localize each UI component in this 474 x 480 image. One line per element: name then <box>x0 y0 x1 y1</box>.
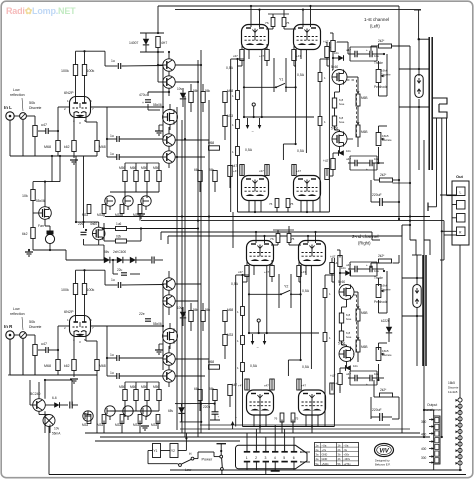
logo ViV <box>375 444 394 457</box>
wire cathode b In L <box>85 113 87 123</box>
svg-text:2k2*: 2k2* <box>378 254 385 258</box>
vertical rail d <box>200 50 202 433</box>
svg-text:75: 75 <box>290 202 294 206</box>
wire q rows right2 <box>175 139 209 141</box>
arrow up ch2 <box>232 422 234 429</box>
svg-text:14007: 14007 <box>129 41 139 45</box>
svg-text:75: 75 <box>291 237 295 241</box>
wire fan motor <box>44 219 46 226</box>
wire h59 216 <box>236 274 249 276</box>
svg-text:+47: +47 <box>323 159 329 163</box>
capacitor u47 r2 0 <box>354 160 356 167</box>
wire tube2 pin stubs 216 <box>305 266 307 276</box>
wire cathode b In R <box>85 332 87 342</box>
wire Y boxes link <box>161 450 171 452</box>
svg-text:(Left): (Left) <box>370 24 380 29</box>
svg-text:k47: k47 <box>232 164 237 168</box>
resistor 56k b <box>201 311 205 322</box>
wire jack to pot In R <box>14 334 19 336</box>
resistor 56k c <box>213 390 217 401</box>
resistor M56 3 <box>145 390 149 401</box>
wire v295 0 <box>295 50 297 144</box>
resistor 1u6 <box>116 227 127 231</box>
wire ch2 tube bottom drops <box>259 405 261 434</box>
pot 16k6 215 <box>376 285 381 298</box>
svg-text:M33: M33 <box>97 213 103 217</box>
svg-text:300: 300 <box>421 456 427 460</box>
wire out feeds <box>446 119 448 196</box>
wire mid risers ch1 <box>103 214 105 217</box>
svg-text:16k5: 16k5 <box>382 134 389 138</box>
resistor M66 2 <box>134 171 138 182</box>
resistor 6k2 left <box>31 228 35 239</box>
capacitor coupling 1u In L <box>117 63 119 69</box>
wire 220uF ch2 <box>392 418 399 420</box>
resistor M56 3 <box>145 171 149 182</box>
tube V1 216 <box>247 241 274 266</box>
svg-text:6: 6 <box>293 456 295 460</box>
wire M6B 0 <box>357 106 359 125</box>
triode 6N2P <box>70 316 91 337</box>
wire out R feed <box>444 234 457 236</box>
wire res row bottom <box>124 182 126 199</box>
svg-text:M6B: M6B <box>361 96 368 100</box>
svg-text:56k: 56k <box>209 168 215 172</box>
resistor 100k a In R <box>73 284 77 295</box>
svg-text:7S: 7S <box>270 237 274 241</box>
svg-text:M56: M56 <box>119 385 125 389</box>
resistor +47 e 0 <box>240 165 244 176</box>
svg-text:1-st channel: 1-st channel <box>364 17 389 22</box>
wire v244 0 <box>243 50 245 117</box>
svg-text:M66: M66 <box>130 385 136 389</box>
svg-text:76: 76 <box>274 417 278 421</box>
wire Y boxes loop <box>148 450 153 452</box>
svg-text:M68: M68 <box>44 364 51 368</box>
bottom bus 3 <box>170 469 462 471</box>
svg-text:M56: M56 <box>119 166 125 170</box>
wire M68 to bus In R <box>57 371 59 376</box>
connector shell <box>236 445 308 469</box>
wire anode a In R <box>75 295 77 323</box>
svg-text:0,5A: 0,5A <box>297 149 305 153</box>
wire h144 0 <box>283 143 295 145</box>
wire tube1 bottoms 0 <box>241 44 243 50</box>
wire grid bottom tie 0 <box>238 211 330 213</box>
capacitor 10u r2 0 <box>369 160 371 167</box>
resistor 56k a <box>189 92 193 103</box>
resistor 75 d 0 <box>286 199 290 208</box>
wire caps right <box>119 357 163 359</box>
jfet bias d <box>83 411 93 421</box>
wire out verticals <box>436 119 438 207</box>
bottom bus 5 <box>95 440 240 442</box>
svg-text:M6B: M6B <box>361 311 368 315</box>
diode D7 <box>130 257 136 263</box>
wire bar feed <box>418 10 420 40</box>
wire q1 q2 <box>168 52 170 59</box>
wire base node ch2 <box>162 283 164 285</box>
svg-text:fuse: fuse <box>339 102 345 106</box>
wire cathode a In L <box>73 113 75 141</box>
wire right verticals x402 <box>401 225 403 433</box>
vertical rail c <box>197 60 199 437</box>
wire 2k2 ch2 link <box>393 262 400 264</box>
resistor M68 h <box>209 365 220 369</box>
svg-text:56k: 56k <box>209 387 215 391</box>
transistor Q2b <box>163 295 175 307</box>
wire fan bus <box>44 411 46 433</box>
wire right verticals x444 <box>443 221 445 260</box>
svg-text:56mA: 56mA <box>52 432 61 436</box>
wire H switch right <box>194 458 198 460</box>
resistor 2k2 b 0 <box>380 178 393 182</box>
diode D5 <box>104 257 110 263</box>
mosfet 55x06 mid2 <box>163 329 178 344</box>
svg-text:M66: M66 <box>130 166 136 170</box>
svg-text:0,5A: 0,5A <box>250 364 258 368</box>
resistor M56 1 <box>123 171 127 182</box>
wire k62 bus In L <box>73 152 75 159</box>
fuse 1 b 0 <box>236 120 240 129</box>
svg-text:Discrete: Discrete <box>448 386 459 390</box>
wire 10k top <box>32 182 34 190</box>
diode 10v r2 215 <box>345 365 350 371</box>
wire q rows right <box>175 64 201 66</box>
wire ch2 rail 1 <box>161 231 372 233</box>
fuse 1 d 216 <box>323 289 327 298</box>
svg-text:55x06: 55x06 <box>153 322 162 326</box>
wire tube34 bot 216 <box>259 415 261 427</box>
wire diode tie bot <box>140 51 164 53</box>
svg-text:0,5A: 0,5A <box>226 66 234 70</box>
wire pot2 ch2 <box>378 364 380 380</box>
wire 100k top In R <box>75 270 77 283</box>
wire tube34 bot 0 <box>254 201 256 213</box>
wire h144 216 <box>288 359 300 361</box>
wire mosfet mid2 <box>169 323 171 329</box>
wire anode a In L <box>75 76 77 104</box>
wire M68b bus In L <box>96 152 98 157</box>
svg-text:+: + <box>142 101 144 105</box>
diode 10v r 0 <box>338 55 343 61</box>
svg-text:u47: u47 <box>41 123 47 127</box>
svg-text:M33: M33 <box>82 423 88 427</box>
svg-text:4: 4 <box>274 456 276 460</box>
resistor M33 3 <box>138 415 142 424</box>
wire res drops 0 <box>241 61 243 67</box>
svg-text:22e: 22e <box>139 312 145 316</box>
long vertical a <box>423 140 425 437</box>
resistor +47 e 216 <box>245 379 249 390</box>
wire diode row <box>100 259 104 261</box>
svg-text:M56: M56 <box>153 166 159 170</box>
wire mosfet left <box>32 201 34 214</box>
arrow down a 0 <box>247 118 249 128</box>
svg-text:x47: x47 <box>264 384 269 388</box>
wire 2k2b ch2 down <box>393 396 400 398</box>
wire top rail to bar <box>398 6 400 125</box>
wire 6k2 bottom <box>32 239 34 251</box>
wire BC240 base <box>30 404 33 406</box>
resistor 75 d 216 <box>291 413 295 422</box>
wire 220uF ch1 <box>392 201 399 203</box>
resistor M68 cath In L <box>95 141 99 152</box>
svg-text:+47: +47 <box>330 374 336 378</box>
wire q rows right2 ch2 <box>175 358 209 360</box>
jfet bias b <box>123 406 133 416</box>
wire 470u <box>147 92 149 96</box>
resistor 66k <box>198 171 202 182</box>
wire grid right edge 0 <box>328 42 330 212</box>
triode 6N2P <box>70 97 91 118</box>
resistor M68 grid In L <box>56 141 60 152</box>
wire grid right rail 0 <box>319 59 321 73</box>
wire bc240 top <box>44 380 46 399</box>
svg-text:50k: 50k <box>29 320 35 324</box>
svg-text:M33: M33 <box>82 213 88 217</box>
svg-text:6N2P: 6N2P <box>64 310 74 314</box>
tube V1 0 <box>242 25 269 50</box>
wire top res 0 <box>268 13 289 15</box>
wire v306 216 <box>310 266 312 369</box>
box Y1 <box>153 444 161 458</box>
diode D6 <box>117 257 123 263</box>
svg-text:ViV: ViV <box>379 449 389 455</box>
wire lower tube drops 0 <box>248 201 250 213</box>
svg-text:2k2*: 2k2* <box>380 173 387 177</box>
diode zener 10v <box>180 93 186 99</box>
resistor k62 In R <box>72 360 76 371</box>
dashed feedback 215 <box>356 295 358 352</box>
diode 10v r2 0 <box>338 150 343 156</box>
svg-text:1u: 1u <box>110 371 114 375</box>
svg-text:GND: GND <box>322 457 328 461</box>
resistor +47 r 0 <box>331 41 335 52</box>
wire resistor to bus In L <box>34 137 36 157</box>
wire 22u <box>112 260 114 274</box>
arrow down b 0 <box>259 118 261 128</box>
svg-text:56k: 56k <box>205 89 211 93</box>
svg-text:M68: M68 <box>44 145 51 149</box>
Out pin R <box>457 227 466 236</box>
transformer core <box>434 416 440 464</box>
wire caps r 215 <box>348 268 355 270</box>
fuse 6.0 215 <box>339 331 343 341</box>
wire drivers <box>168 346 170 353</box>
tube V2 0 <box>294 25 321 50</box>
terminal v253 0 <box>252 103 255 106</box>
svg-text:1u: 1u <box>110 152 114 156</box>
svg-text:Discrete: Discrete <box>29 325 42 329</box>
wire k2226 <box>388 318 390 327</box>
fuse 1 e 0 <box>318 117 322 126</box>
svg-text:4n60: 4n60 <box>90 222 97 226</box>
wire transformer top <box>433 410 435 416</box>
mosfet 55x06 left <box>39 207 52 220</box>
svg-text:Penthode: Penthode <box>374 300 388 304</box>
wire midright v <box>224 103 226 116</box>
wire top feeds 0 <box>250 6 252 27</box>
tube V2 216 <box>299 241 326 266</box>
wire right col 0 <box>332 52 334 59</box>
svg-text:5=60: 5=60 <box>338 280 345 284</box>
wire 56k <box>190 303 192 311</box>
svg-text:10v: 10v <box>353 364 358 368</box>
capacitor 22e <box>145 318 151 320</box>
resistor M68 v <box>223 311 227 322</box>
resistor 02k <box>116 239 127 243</box>
svg-text:u47: u47 <box>346 263 351 267</box>
wire left down ch2 <box>22 338 24 375</box>
svg-text:Y2: Y2 <box>284 285 288 289</box>
transistor driver b <box>163 370 175 382</box>
svg-text:Radi✿Lomp.NET: Radi✿Lomp.NET <box>6 6 76 16</box>
junction dots misc <box>181 215 183 217</box>
transistor driver a <box>163 134 175 146</box>
wire tube2 pin stubs 0 <box>300 50 302 60</box>
resistor 4H7 <box>156 37 160 48</box>
ground conn 1 <box>271 470 280 472</box>
svg-text:11x1k5: 11x1k5 <box>448 390 458 394</box>
tube V4 0 <box>294 176 321 201</box>
wire 2k2 ch1 link <box>392 45 411 47</box>
svg-text:400: 400 <box>421 433 427 437</box>
bottom bus 2 <box>85 432 420 434</box>
svg-text:+: + <box>366 263 368 267</box>
svg-text:470u: 470u <box>139 93 147 97</box>
box Y2 <box>170 444 178 458</box>
svg-text:2k2*: 2k2* <box>378 39 385 43</box>
svg-text:66k: 66k <box>194 387 200 391</box>
svg-text:6N2P: 6N2P <box>64 91 74 95</box>
resistor +47 b 216 <box>270 266 274 277</box>
jfet bias a <box>105 406 115 416</box>
resistor M68 v <box>223 92 227 103</box>
jfet bias a <box>105 196 115 206</box>
svg-text:+: + <box>218 415 220 419</box>
svg-text:2xKC600: 2xKC600 <box>113 250 126 254</box>
resistor k47 <box>228 385 232 396</box>
resistor M66 2 <box>134 390 138 401</box>
tube V4 216 <box>299 390 326 415</box>
svg-text:02k: 02k <box>116 235 122 239</box>
wire v286 216 <box>290 274 292 308</box>
svg-text:M33: M33 <box>151 423 157 427</box>
svg-text:50k: 50k <box>29 101 35 105</box>
Out connector box <box>452 181 469 245</box>
resistor 76 c 0 <box>275 199 279 208</box>
svg-text:0,5A: 0,5A <box>297 73 305 77</box>
jfet bias b <box>123 196 133 206</box>
wire fan bus left <box>49 474 110 476</box>
fuse 1 b 216 <box>241 336 245 345</box>
wire v244 216 <box>248 266 250 333</box>
wire res row tie ch1 <box>125 162 159 164</box>
wire h59 0 <box>231 58 244 60</box>
resistor 2k2 a 0 <box>379 44 392 48</box>
svg-text:M68: M68 <box>227 89 233 93</box>
connector pins top <box>244 451 250 453</box>
capacitor term <box>69 402 71 409</box>
resistor M33 1 <box>102 205 106 214</box>
capacitor 1u mid a <box>116 355 118 361</box>
fuse 1 a 0 <box>236 91 240 100</box>
capacitor 220uF 0 <box>379 198 381 206</box>
dashed feedback 0 <box>356 80 358 137</box>
wire ch2 out to tubes <box>118 325 163 327</box>
wire v261 0 <box>261 50 263 117</box>
pot 16k6 0 <box>376 70 381 83</box>
oval regulator ch2 <box>413 285 421 308</box>
bottom bus 2c <box>200 424 390 426</box>
wire anode b In R <box>84 295 86 323</box>
wire right verticals x412 <box>393 182 411 184</box>
svg-text:M33: M33 <box>97 423 103 427</box>
wire anode b In L <box>84 76 86 104</box>
wire right col feeds ch2 <box>339 250 341 258</box>
svg-text:100k: 100k <box>61 69 69 73</box>
mosfet 5x60 a 215 <box>339 285 354 300</box>
wire tabs <box>436 118 438 119</box>
diode 10v r 215 <box>345 270 350 276</box>
wire grid left edge 216 <box>235 275 237 427</box>
resistor 56k a <box>189 311 193 322</box>
wire top feeds 216 <box>255 232 257 243</box>
wire M6B 215 <box>357 321 359 340</box>
svg-text:Low: Low <box>13 88 20 92</box>
fuse 1 e 216 <box>323 333 327 342</box>
svg-text:~Ua: ~Ua <box>344 443 349 447</box>
resistor M68 h <box>209 146 220 150</box>
capacitor 22u <box>121 272 127 274</box>
resistor M33 2 <box>120 415 124 424</box>
switch H Low <box>179 464 182 467</box>
T node <box>427 203 429 212</box>
resistor +47 r 215 <box>338 256 342 267</box>
vertical rail g <box>162 65 164 139</box>
wire v274 216 <box>278 274 280 308</box>
resistor +47 h 0 <box>325 169 329 180</box>
pot M6B b 215 <box>356 340 360 352</box>
svg-text:fuse: fuse <box>346 335 352 339</box>
wire cap In R <box>38 349 46 351</box>
arrow down a 216 <box>252 334 254 344</box>
pot 16k5 215 <box>376 348 381 361</box>
wire lower tube drops 216 <box>253 415 255 427</box>
wire right col feeds ch1 <box>332 33 334 41</box>
wire ch2 bus <box>8 374 10 376</box>
svg-text:Discrete: Discrete <box>381 73 391 77</box>
resistor x47 f 0 <box>265 165 269 176</box>
wire pot2 ch1 <box>378 147 380 163</box>
wire top rail 2 <box>175 9 421 11</box>
capacitor 220u low <box>212 411 219 413</box>
mosfet 55x06 mid <box>163 110 178 125</box>
resistor M33 1 <box>102 415 106 424</box>
wire pot down ch2 <box>378 300 380 313</box>
capacitor end <box>151 257 153 264</box>
fuse 6.0 0 <box>332 116 336 126</box>
wire connector grounds <box>246 462 248 470</box>
fan circle <box>43 415 55 427</box>
svg-text:u47: u47 <box>346 372 351 376</box>
thick bar ch1 <box>428 37 430 170</box>
svg-text:M68: M68 <box>227 308 233 312</box>
wire ch2 rail stubs <box>160 232 162 240</box>
wire 22v 4n60 <box>83 222 85 228</box>
svg-text:fuse: fuse <box>339 120 345 124</box>
